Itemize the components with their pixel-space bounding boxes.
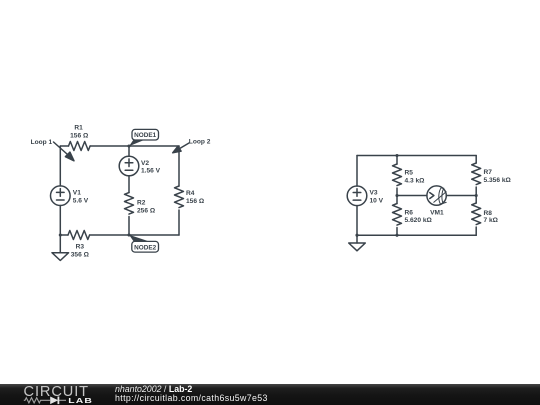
svg-text:Loop 2: Loop 2 xyxy=(189,138,211,145)
svg-text:4.3 kΩ: 4.3 kΩ xyxy=(405,177,426,184)
node junction dot mid left xyxy=(395,194,398,197)
svg-text:5.620 kΩ: 5.620 kΩ xyxy=(405,217,433,224)
ground left xyxy=(52,235,69,261)
resistor R4 xyxy=(175,186,184,208)
svg-text:V3: V3 xyxy=(370,190,378,197)
svg-text:R7: R7 xyxy=(484,169,493,176)
node junction dot bottom mid xyxy=(395,234,398,237)
svg-text:256 Ω: 256 Ω xyxy=(137,207,156,214)
wire mid node to R8 xyxy=(475,196,477,204)
wire R2 to bottom rail xyxy=(128,217,130,236)
wire left rail V1 bottom xyxy=(59,206,61,236)
wire left rail V1 top xyxy=(59,146,61,186)
loop 1 arrow xyxy=(54,142,75,161)
wire bottom rail right circuit xyxy=(357,234,476,236)
node label NODE1 xyxy=(129,129,159,146)
resistor R1 xyxy=(69,142,91,151)
resistor R5 xyxy=(393,164,402,186)
svg-text:NODE1: NODE1 xyxy=(134,132,156,139)
svg-text:7 kΩ: 7 kΩ xyxy=(484,217,499,224)
resistor R6 xyxy=(393,204,402,226)
resistor R7 xyxy=(472,163,481,185)
svg-text:R4: R4 xyxy=(186,190,195,197)
loop 2 arrow xyxy=(173,143,189,153)
footer bar xyxy=(0,384,540,405)
CircuitLab logo xyxy=(23,384,98,405)
wire bottom rail left lead xyxy=(60,234,68,236)
node junction dot mid right xyxy=(475,194,478,197)
voltage source V2 xyxy=(119,156,139,176)
svg-text:LAB: LAB xyxy=(68,396,93,404)
wire right circuit left rail top xyxy=(356,156,358,187)
svg-text:356 Ω: 356 Ω xyxy=(71,251,90,258)
voltage source V1 xyxy=(51,186,71,206)
resistor R2 xyxy=(125,193,134,215)
wire right rail top lead xyxy=(178,146,180,186)
wire mid node to R6 xyxy=(396,196,398,204)
ground right xyxy=(349,235,366,251)
wire V2 top lead xyxy=(128,146,130,156)
svg-text:R5: R5 xyxy=(405,169,414,176)
svg-text:VM1: VM1 xyxy=(430,209,444,216)
node junction dot NODE1 xyxy=(127,144,130,147)
svg-text:V2: V2 xyxy=(141,160,149,167)
wire top rail left lead xyxy=(60,145,68,147)
node junction dot NODE2 xyxy=(127,233,130,236)
wire VM1 left xyxy=(397,195,427,197)
wire right circuit left rail bottom xyxy=(356,206,358,236)
svg-text:NODE2: NODE2 xyxy=(134,244,156,251)
wire R5 to mid node xyxy=(396,188,398,196)
svg-text:156 Ω: 156 Ω xyxy=(70,133,89,140)
svg-text:R3: R3 xyxy=(76,244,85,251)
node junction dot left ground xyxy=(59,233,62,236)
resistor R3 xyxy=(68,231,90,240)
svg-text:5.6 V: 5.6 V xyxy=(73,197,89,204)
svg-text:156 Ω: 156 Ω xyxy=(186,198,205,205)
node junction dot right top xyxy=(395,154,398,157)
svg-text:R6: R6 xyxy=(405,209,414,216)
voltmeter VM1 xyxy=(427,186,446,205)
wire VM1 right xyxy=(446,195,476,197)
wire top rail right of R1 xyxy=(90,145,179,147)
wire R6 to bottom rail xyxy=(396,228,398,236)
wire right rail bottom xyxy=(178,210,180,235)
wire R8 to bottom rail xyxy=(475,227,477,235)
wire R5 top lead xyxy=(396,156,398,165)
wire V2 to R2 xyxy=(128,176,130,193)
wire bottom rail right of R3 xyxy=(90,234,179,236)
svg-text:R8: R8 xyxy=(484,210,493,217)
voltage source V3 xyxy=(347,186,367,206)
credit text xyxy=(115,385,268,404)
node junction dot bottom left rail xyxy=(355,234,358,237)
svg-text:V1: V1 xyxy=(73,190,81,197)
svg-text:5.356 kΩ: 5.356 kΩ xyxy=(484,177,512,184)
svg-text:Loop 1: Loop 1 xyxy=(31,139,53,146)
resistor R8 xyxy=(472,203,481,225)
wire R7 to mid node xyxy=(475,187,477,196)
svg-text:10 V: 10 V xyxy=(370,198,384,205)
node label NODE2 xyxy=(129,235,159,252)
svg-text:R1: R1 xyxy=(74,125,83,132)
right circuit: top rail xyxy=(357,155,476,157)
wire R7 top lead xyxy=(475,156,477,164)
svg-text:1.56 V: 1.56 V xyxy=(141,168,161,175)
svg-text:R2: R2 xyxy=(137,200,146,207)
